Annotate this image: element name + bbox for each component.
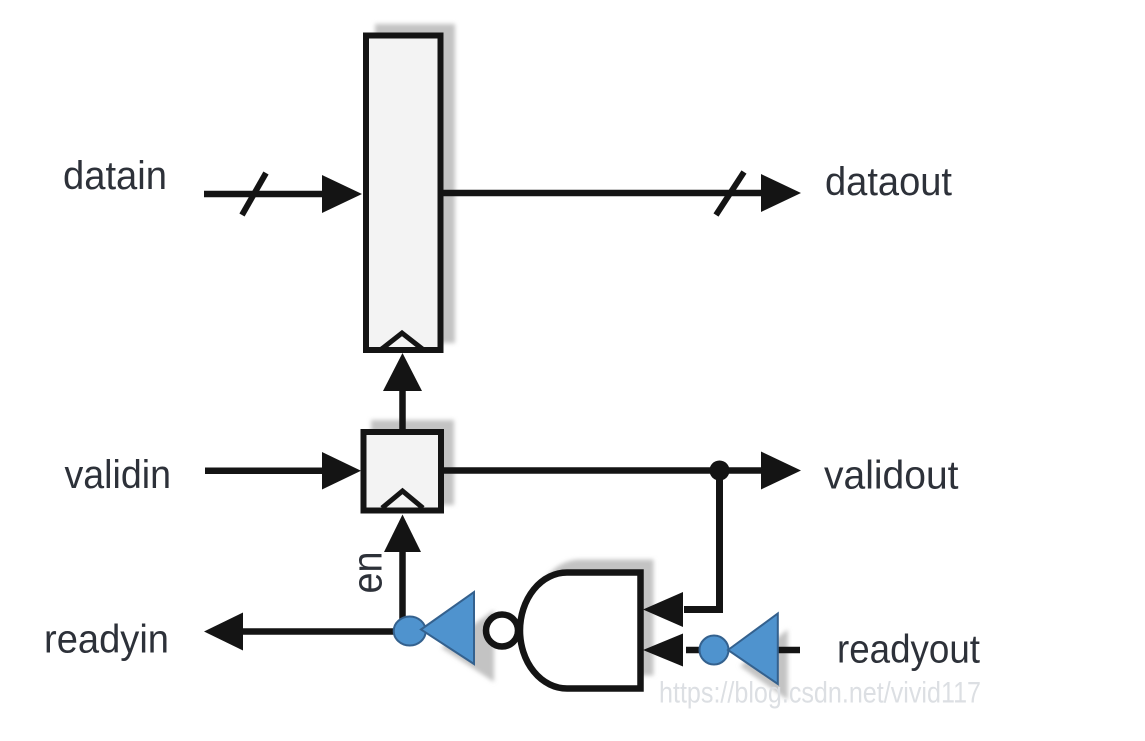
svg-text:validin: validin <box>65 453 172 497</box>
svg-text:readyin: readyin <box>44 618 169 662</box>
svg-text:validout: validout <box>824 454 959 498</box>
svg-text:datain: datain <box>63 154 167 198</box>
svg-text:en: en <box>344 552 391 594</box>
svg-text:https://blog.csdn.net/vivid117: https://blog.csdn.net/vivid117 <box>659 677 981 710</box>
svg-text:dataout: dataout <box>825 160 952 204</box>
svg-text:readyout: readyout <box>837 628 980 672</box>
